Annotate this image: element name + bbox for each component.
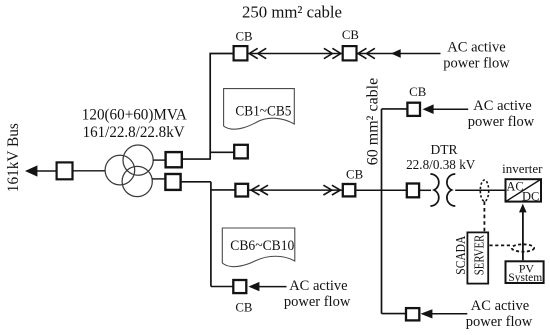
dashed signal wire: AC measurement to SCADA server (483, 201, 485, 231)
label banner "CB1~CB5" (document shape) (224, 89, 295, 130)
wire: bottom-right arrow lead (431, 313, 467, 315)
svg-text:AC active: AC active (473, 98, 531, 114)
arrowhead: AC power into upper branch CB (423, 104, 434, 114)
wire: row 2 to DTR (crosses 60mm riser) (357, 189, 407, 191)
transformer T1: tertiary circle (122, 166, 152, 196)
svg-text:AC active: AC active (471, 298, 529, 314)
circuit breaker (161kV side) (57, 162, 73, 179)
transformer T1: three-winding, primary circle (105, 155, 135, 185)
svg-text:power flow: power flow (443, 55, 510, 71)
inverter diagonal divider (505, 179, 541, 202)
wire: bottom-right branch (382, 313, 406, 315)
SCADA server box (467, 232, 488, 283)
wire: CB row 1 bus (y=156.4) (183, 158, 211, 160)
wire: arrow to HV breaker (37, 170, 56, 172)
transformer DTR: primary winding (two arcs) (430, 174, 438, 206)
svg-text:CB1~CB5: CB1~CB5 (235, 103, 291, 119)
wire: top cable between CB squares (249, 53, 342, 55)
wire: upper PV branch (382, 108, 408, 110)
svg-text:power flow: power flow (466, 314, 533, 330)
wire: transformer tertiary to CB (152, 178, 164, 180)
svg-text:AC active: AC active (447, 39, 505, 55)
circuit breaker CB (top cable, right) (343, 46, 357, 60)
power-flow chevrons << (row 2, after left CB) (251, 185, 268, 195)
arrowhead: into inverter DC (points up) (519, 204, 527, 213)
svg-text:DTR: DTR (431, 142, 458, 157)
circuit breaker (bottom-left branch) (233, 280, 246, 293)
svg-text:CB: CB (409, 85, 426, 99)
wire: 60mm riser (x=381.5) (381, 109, 383, 314)
circuit breaker (row 2, mid) (343, 184, 356, 196)
circuit breaker (transformer tertiary) (165, 174, 180, 190)
svg-text:161/22.8/22.8kV: 161/22.8/22.8kV (83, 124, 185, 141)
wire: row 2 stub from riser to CB (211, 189, 236, 191)
wire: lower riser (x=210.9 from row2 down to bottom branch) (210, 182, 212, 287)
circuit breaker (upper branch) (407, 103, 420, 116)
wire: PV system to inverter DC input (522, 212, 524, 260)
wire: upper branch arrow lead (433, 108, 469, 110)
wire: CB to DTR primary (420, 189, 431, 191)
svg-text:CB: CB (342, 28, 359, 42)
label banner "CB6~CB10" (document shape) (222, 228, 294, 267)
svg-text:CB: CB (235, 300, 252, 314)
svg-text:120(60+60)MVA: 120(60+60)MVA (82, 106, 187, 123)
circuit breaker (transformer secondary) (166, 152, 182, 167)
svg-text:inverter: inverter (502, 161, 543, 176)
svg-text:power flow: power flow (284, 294, 351, 310)
power-flow chevrons << (top cable, after right CB) (358, 48, 375, 58)
svg-text:22.8/0.38 kV: 22.8/0.38 kV (406, 157, 476, 172)
svg-text:AC active: AC active (289, 278, 347, 294)
wire: tertiary CB to riser (y=181.8) (182, 181, 211, 183)
svg-text:System: System (508, 272, 542, 284)
circuit breaker (bottom-right branch) (406, 308, 419, 320)
svg-text:DC: DC (522, 190, 539, 204)
wire: bottom-left branch from riser (211, 286, 233, 288)
circuit breaker (row 2, left) (235, 184, 248, 197)
svg-text:161kV Bus: 161kV Bus (5, 123, 22, 192)
wire: HV breaker to transformer (74, 170, 106, 172)
svg-text:SERVER: SERVER (471, 235, 486, 276)
svg-text:CB: CB (235, 30, 252, 44)
arrowhead: AC power into bottom-right CB (421, 309, 433, 318)
svg-text:60 mm² cable: 60 mm² cable (365, 78, 382, 165)
wire: transformer secondary to CB (153, 159, 164, 161)
wire: row 1 stub from riser to CB (210, 151, 234, 153)
power-flow chevrons >> (top cable, before right CB) (324, 48, 341, 58)
circuit breaker (row 1 feeder) (234, 145, 248, 159)
transformer DTR: secondary winding (two arcs) (447, 174, 455, 206)
arrowhead: AC power into bottom-left CB (248, 282, 259, 291)
PV system box (506, 261, 544, 283)
circuit breaker (before DTR) (407, 184, 419, 198)
wire: 22.8kV feeder riser (vertical x=211, top cable down to CB row 1) (210, 54, 232, 160)
wire: DTR secondary to inverter (455, 189, 505, 191)
arrowhead: to 161kV bus (points left) (25, 165, 37, 176)
svg-text:CB: CB (346, 168, 363, 182)
wire: top cable right segment to AC text (358, 53, 441, 55)
wire: bottom-left arrow lead (259, 286, 287, 288)
measurement point: dashed ellipse on inverter AC line (480, 180, 488, 201)
power-flow chevrons >> (row 2, before mid CB) (323, 185, 340, 195)
power-flow chevrons << (top cable, after left CB) (249, 48, 266, 58)
measurement point: dashed ellipse on PV DC line (512, 244, 534, 251)
dashed signal wire: SCADA server to DC measurement (489, 244, 512, 246)
circuit breaker CB (top cable, left) (234, 46, 248, 60)
svg-text:CB6~CB10: CB6~CB10 (230, 238, 294, 254)
arrowhead: AC active power flow into top cable (391, 49, 401, 58)
inverter block U1 (506, 179, 542, 201)
svg-text:250 mm² cable: 250 mm² cable (242, 2, 342, 21)
transformer T1: secondary circle (123, 145, 153, 175)
wire: row 2 main run (248, 189, 343, 191)
svg-text:power flow: power flow (468, 114, 535, 130)
